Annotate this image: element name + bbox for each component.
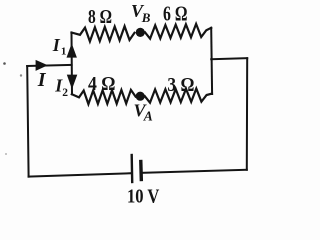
- svg-text:I: I: [37, 69, 47, 91]
- svg-text:A: A: [143, 109, 153, 124]
- svg-text:10 V: 10 V: [127, 186, 160, 208]
- svg-text:8 Ω: 8 Ω: [88, 7, 112, 28]
- svg-text:2: 2: [62, 87, 68, 99]
- svg-text:B: B: [141, 10, 151, 25]
- svg-text:I: I: [52, 35, 61, 55]
- svg-text:1: 1: [61, 46, 67, 58]
- svg-text:3 Ω: 3 Ω: [167, 75, 194, 96]
- svg-text:4 Ω: 4 Ω: [88, 74, 116, 95]
- svg-text:6 Ω: 6 Ω: [163, 2, 188, 26]
